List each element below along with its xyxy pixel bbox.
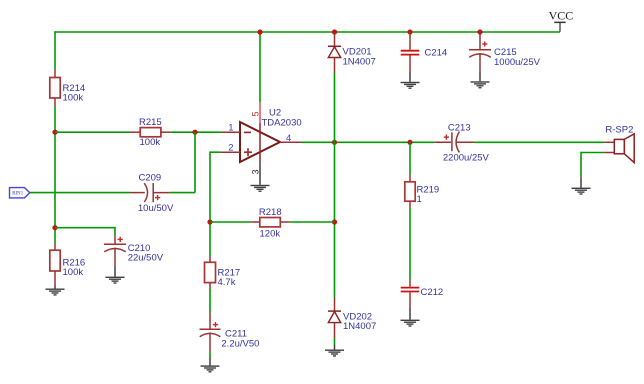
- junction left rail / C210 R216: [52, 225, 57, 230]
- pin 1 of U2: [221, 131, 240, 133]
- junction R215 wire / C209 branch: [192, 130, 197, 135]
- svg-text:C213: C213: [448, 123, 471, 134]
- wire left rail middle segment: [54, 106, 56, 244]
- ground under C211: [201, 365, 220, 372]
- ground under C212: [401, 320, 420, 327]
- op-amp U2 TDA2030: [240, 108, 302, 162]
- ground under pin 3: [251, 185, 270, 192]
- svg-text:R-SP2: R-SP2: [605, 125, 633, 136]
- resistor R217 4.7k: [205, 256, 241, 289]
- resistor R218 120k: [250, 207, 289, 239]
- svg-text:R218: R218: [259, 207, 282, 218]
- junction rail / pin5: [257, 29, 262, 34]
- wire pin5 drop from rail: [259, 32, 261, 102]
- wire R218 row left: [210, 221, 250, 223]
- svg-text:2200u/25V: 2200u/25V: [443, 153, 490, 164]
- svg-text:4: 4: [286, 133, 291, 144]
- ground under R216: [46, 289, 65, 296]
- svg-text:100k: 100k: [63, 267, 84, 278]
- wire RIN1 to C209: [30, 192, 130, 194]
- power symbol VCC: [549, 8, 574, 31]
- junction R218 left: [207, 219, 212, 224]
- ground under C210: [106, 277, 125, 284]
- svg-text:R215: R215: [139, 117, 162, 128]
- pin 2 of U2: [221, 151, 240, 153]
- junction R218 right: [332, 219, 337, 224]
- wire left rail upper segment: [54, 31, 56, 69]
- svg-text:1N4007: 1N4007: [343, 321, 376, 332]
- svg-text:22u/50V: 22u/50V: [128, 252, 164, 263]
- svg-text:RIN1: RIN1: [12, 192, 24, 197]
- svg-text:10u/50V: 10u/50V: [138, 203, 174, 214]
- junction left rail / R215: [52, 130, 57, 135]
- resistor R216: [50, 244, 85, 289]
- svg-text:1: 1: [417, 194, 422, 205]
- svg-text:C212: C212: [421, 287, 444, 298]
- junction rail / C215: [477, 29, 482, 34]
- capacitor C212: [401, 279, 444, 320]
- wire output row to C213: [301, 141, 434, 143]
- svg-text:3: 3: [251, 169, 261, 174]
- capacitor C209 10u/50V: [130, 173, 174, 214]
- svg-text:2.2u/V50: 2.2u/V50: [221, 339, 259, 350]
- svg-text:TDA2030: TDA2030: [262, 118, 302, 129]
- junction output / diode column: [332, 140, 337, 145]
- wire R215 to pin1: [171, 131, 221, 133]
- svg-text:1000u/25V: 1000u/25V: [494, 57, 541, 68]
- wire C209 to branch corner: [170, 192, 195, 194]
- capacitor C215 1000u/25V: [469, 32, 541, 81]
- junction output / R219: [407, 140, 412, 145]
- svg-text:100k: 100k: [63, 92, 84, 103]
- wire junction to C210: [55, 227, 115, 229]
- svg-text:C209: C209: [139, 173, 162, 184]
- wire VD201 to output junction and down to R218: [334, 73, 336, 298]
- port RIN1: [10, 188, 30, 198]
- svg-text:120k: 120k: [260, 228, 281, 239]
- ground under VD202: [325, 350, 344, 357]
- wire R217 to C211: [209, 289, 211, 313]
- wire VCC top rail: [55, 31, 560, 33]
- pin 3 of U2: [259, 163, 261, 185]
- wire VD202 to ground: [334, 338, 336, 345]
- wire pin2 to feedback column: [210, 151, 221, 153]
- wire C213 to speaker: [474, 141, 604, 143]
- pin 4 of U2: [280, 141, 301, 143]
- junction rail / VD201: [332, 29, 337, 34]
- capacitor C213 2200u/25V: [434, 123, 489, 164]
- ground under speaker: [572, 188, 591, 195]
- diode VD201 1N4007: [328, 32, 376, 73]
- svg-text:2: 2: [228, 142, 233, 153]
- svg-text:100k: 100k: [140, 137, 161, 148]
- capacitor C214: [401, 32, 448, 82]
- svg-text:4.7k: 4.7k: [218, 277, 236, 288]
- diode VD202 1N4007: [328, 298, 376, 339]
- speaker R-SP2: [604, 125, 634, 163]
- ground under C214: [401, 82, 420, 89]
- svg-text:VCC: VCC: [549, 8, 574, 22]
- wire C210 drop: [114, 227, 116, 236]
- ground under C215: [471, 81, 490, 88]
- svg-text:1: 1: [228, 122, 233, 133]
- svg-text:C214: C214: [425, 47, 448, 58]
- junction rail / C214: [407, 29, 412, 34]
- wire feedback column upper: [209, 151, 211, 256]
- wire C211 to ground: [209, 352, 211, 357]
- resistor R215: [130, 117, 171, 148]
- wire speaker bottom leg: [581, 152, 604, 154]
- resistor R214: [50, 70, 85, 107]
- capacitor C211 2.2u/V50: [200, 313, 260, 353]
- svg-text:5: 5: [251, 111, 261, 116]
- svg-text:1N4007: 1N4007: [343, 57, 376, 68]
- wire R215 row left: [55, 131, 130, 133]
- pin 5 of U2: [259, 102, 261, 123]
- wire R219 to C212: [409, 208, 411, 280]
- resistor R219: [405, 142, 439, 207]
- capacitor C210 22u/50V: [104, 236, 164, 277]
- wire R218 row right: [290, 221, 335, 223]
- wire C209 branch vertical: [194, 132, 196, 192]
